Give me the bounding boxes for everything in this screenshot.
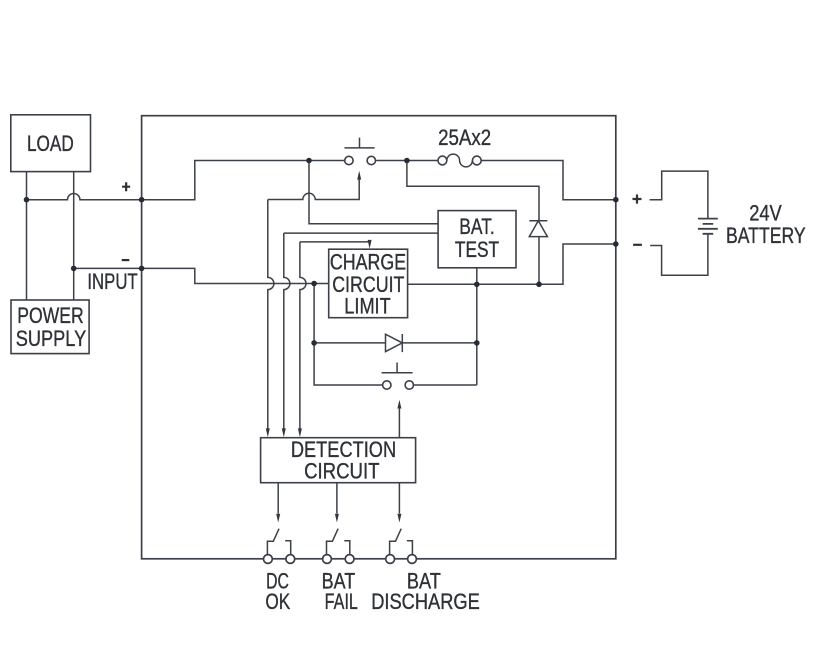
relay contact K2: [323, 529, 354, 564]
svg-text:25Ax2: 25Ax2: [438, 125, 491, 150]
enclosure: [142, 116, 616, 559]
wire diode2 branch: [407, 161, 539, 221]
node switch right: [404, 158, 410, 164]
svg-text:INPUT: INPUT: [87, 269, 138, 294]
POWER SUPPLY box: [11, 300, 89, 354]
switch S1 button bar: [345, 138, 375, 148]
wire CHARGE output to - battery terminal: [408, 244, 616, 284]
svg-text:CIRCUIT: CIRCUIT: [304, 458, 380, 483]
wire bus2 vertical with hop: [284, 233, 290, 429]
node bus4 top: [311, 281, 317, 287]
wire BAT TEST bottom vertical: [476, 268, 478, 385]
relay contact K1: [264, 529, 295, 564]
node load -: [71, 266, 77, 272]
BAT TEST box: [438, 211, 516, 268]
wire - input line: [74, 267, 142, 269]
battery wiring -: [650, 234, 708, 275]
svg-text:LIMIT: LIMIT: [344, 294, 391, 319]
svg-text:LOAD: LOAD: [27, 131, 74, 156]
pushbutton S2 button bar: [382, 363, 413, 373]
wire from switch junction down to BAT TEST: [309, 161, 438, 224]
svg-text:POWER: POWER: [17, 303, 84, 328]
wire bus4 vertical: [314, 284, 383, 386]
arrow into DETECTION 1: [266, 428, 270, 437]
wire detection outputs down: [277, 483, 279, 514]
svg-text:DISCHARGE: DISCHARGE: [371, 589, 480, 614]
wire bus3 to CHARGE arrow: [300, 241, 370, 242]
battery wiring +: [650, 171, 708, 219]
svg-text:BAT.: BAT.: [459, 214, 495, 239]
pushbutton S2 contacts: [383, 381, 391, 389]
relay contact K3: [386, 529, 417, 564]
svg-text:24V: 24V: [749, 201, 782, 226]
node diode1 left: [311, 340, 317, 346]
node load +: [24, 197, 30, 203]
node input -: [139, 266, 145, 272]
wire - line inside enclosure to CHARGE box: [142, 268, 329, 283]
arrow to relay K2: [335, 514, 339, 523]
plus minus signs: [122, 182, 642, 260]
label - battery: [633, 244, 642, 246]
wire control line to switch with hop: [268, 179, 359, 199]
svg-text:TEST: TEST: [455, 237, 499, 262]
node battery +: [613, 197, 619, 203]
wire switch to fuse: [375, 160, 438, 162]
node switch left: [306, 158, 312, 164]
svg-text:OK: OK: [265, 589, 290, 614]
diode D2: [529, 220, 547, 222]
DETECTION CIRCUIT box: [261, 438, 416, 483]
wire + line inside enclosure to switch: [142, 161, 345, 200]
wire pushbutton2 arrow up: [398, 408, 400, 437]
wire pushbutton2 right to vertical: [414, 384, 477, 386]
junction dots: [24, 158, 619, 346]
svg-text:SUPPLY: SUPPLY: [16, 326, 86, 351]
arrowheads: [266, 171, 402, 523]
label - input: [122, 259, 130, 261]
arrow to relay K3: [397, 514, 401, 523]
svg-text:FAIL: FAIL: [325, 589, 358, 614]
node diode1 right: [474, 340, 480, 346]
label + battery: [633, 195, 642, 204]
CHARGE CIRCUIT LIMIT box: [329, 249, 408, 318]
LOAD box: [11, 115, 91, 172]
arrow to pushbutton S2: [397, 400, 401, 409]
wire + input line with hop: [27, 194, 142, 200]
node battery -: [613, 241, 619, 247]
wire diode1 line: [314, 342, 385, 344]
fuse F1: [438, 156, 447, 165]
svg-text:CHARGE: CHARGE: [330, 249, 406, 274]
arrow into CHARGE box: [368, 240, 372, 249]
arrow to switch S1: [357, 171, 361, 180]
arrow to relay K1: [276, 514, 280, 523]
diode D1: [386, 334, 403, 351]
arrow into DETECTION 2: [282, 428, 286, 437]
wire bus1 vertical with hop: [268, 200, 274, 430]
node bat test bottom: [474, 282, 480, 288]
switch S1 contacts: [345, 156, 353, 164]
wire bus3 vertical with hop: [300, 242, 306, 430]
arrow into DETECTION 3: [298, 428, 302, 437]
svg-text:BATTERY: BATTERY: [726, 223, 806, 248]
wire LOAD left to POWER SUPPLY: [26, 172, 28, 300]
wire fuse to + battery terminal: [481, 161, 616, 200]
battery BT1 plates: [698, 219, 718, 234]
wire bus2 to BAT TEST: [284, 232, 438, 234]
node diode2 bottom: [536, 282, 542, 288]
node input +: [139, 197, 145, 203]
wire LOAD right to POWER SUPPLY: [73, 172, 75, 300]
label + input: [122, 182, 130, 191]
